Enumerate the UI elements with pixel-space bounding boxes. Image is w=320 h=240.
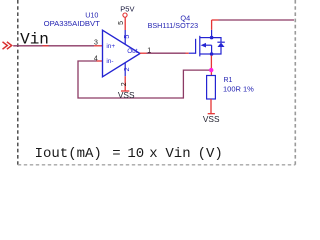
svg-text:Out: Out [127,48,138,55]
body to source [211,45,213,54]
svg-text:VSS: VSS [203,114,220,124]
svg-text:BSH111/SOT23: BSH111/SOT23 [148,21,198,30]
junction node [209,68,213,72]
svg-text:R1: R1 [224,77,233,84]
drain stub [200,37,212,39]
body diode triangle [218,43,225,48]
body diode branch [212,38,221,43]
channel bar [199,36,201,57]
svg-text:100R 1%: 100R 1% [223,85,254,94]
svg-text:OPA335AIDBVT: OPA335AIDBVT [44,19,101,28]
svg-text:5: 5 [122,35,131,39]
off-page connector chevron Vin [3,42,12,49]
op-amp V- pin 2 [124,63,126,76]
svg-text:VSS: VSS [118,90,135,100]
body arrow head [201,43,206,48]
pin stub in+ [94,45,103,47]
svg-text:3: 3 [94,40,98,47]
junction dot drain [210,36,214,40]
svg-text:2: 2 [121,82,128,86]
wire in+ net [13,45,94,47]
gate lead [189,52,196,54]
junction dot source [210,52,214,56]
gate bar [195,39,197,54]
svg-text:P5V: P5V [120,4,134,13]
wire segment red joint [43,45,49,47]
svg-text:1: 1 [147,47,151,54]
ground VSS (R1) [208,113,215,115]
svg-text:2: 2 [122,67,131,71]
svg-text:5: 5 [118,21,125,25]
wire R1 to VSS [210,99,212,114]
wire in- feedback net [78,61,210,98]
dashed page border right [294,0,296,166]
svg-text:Iout(mA) = 10 x: Iout(mA) = 10 x Vin (V) [35,146,223,162]
source stub [200,53,212,55]
svg-text:in+: in+ [106,43,115,50]
wire pin2 to VSS [124,76,126,90]
dashed page border left [17,0,19,166]
svg-text:in-: in- [106,58,113,65]
body stub [205,44,212,46]
source wire to R1 [210,56,212,76]
dashed page border bottom [18,164,296,166]
transistor Q4 NMOS [189,30,225,57]
ground VSS (op-amp) [121,90,129,92]
drain pin up [211,30,213,38]
op-amp U1 triangle [103,30,141,77]
svg-text:4: 4 [94,55,98,62]
output wire op-amp to gate [140,52,147,54]
drain wire to rail [211,20,213,30]
resistor R1 [207,76,216,100]
op-amp V+ pin 5 [124,30,126,44]
wire P5V to V+ pin [124,18,126,31]
pin stub in- [97,60,103,62]
